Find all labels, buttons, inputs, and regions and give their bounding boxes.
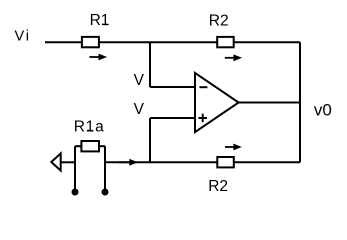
wire op-amp output to feedback node — [239, 102, 300, 104]
R1a left leg wire — [74, 146, 76, 190]
wire top R2 to output node — [234, 41, 300, 43]
resistor R2 (bottom) — [217, 157, 234, 167]
wire bottom R2 to right rail — [234, 161, 300, 163]
resistor R1a — [75, 141, 105, 151]
current arrow under R1 — [89, 54, 107, 61]
svg-text:V: V — [134, 101, 145, 118]
input terminal arrowhead (left open triangle) — [51, 153, 60, 170]
wire non-inverting input to bottom rail (vertical) — [149, 118, 151, 162]
wire output node vertical (right rail) — [299, 42, 301, 162]
op-amp U1 triangle — [195, 73, 239, 132]
svg-text:v0: v0 — [314, 100, 332, 119]
wire Vi to R1 — [45, 41, 82, 43]
wire junction node to inverting input (vertical) — [149, 42, 151, 87]
svg-text:V: V — [134, 72, 145, 89]
R1a right leg wire — [104, 146, 106, 190]
svg-text:Vi: Vi — [15, 29, 31, 45]
wire terminal to R1a left leg — [61, 161, 75, 163]
wire to inverting input (horizontal) — [150, 86, 196, 88]
svg-text:R1: R1 — [90, 12, 110, 29]
op-amp inverting pin minus sign — [199, 86, 207, 88]
terminal dot left — [72, 189, 79, 196]
svg-text:R2: R2 — [209, 12, 229, 29]
current arrow on bottom wire — [119, 159, 138, 166]
op-amp non-inverting pin plus sign — [199, 114, 208, 123]
terminal dot right — [102, 189, 109, 196]
resistor R2 (top feedback) — [217, 37, 234, 47]
wire R1 to R2 top — [99, 41, 217, 43]
svg-text:R1a: R1a — [74, 118, 105, 135]
wire R1a to bottom R2 — [105, 161, 217, 163]
wire to non-inverting input (horizontal) — [150, 117, 196, 119]
current arrow above bottom R2 — [225, 144, 242, 151]
resistor R1 — [82, 37, 99, 47]
svg-text:R2: R2 — [208, 178, 228, 195]
current arrow under top R2 — [225, 54, 242, 61]
